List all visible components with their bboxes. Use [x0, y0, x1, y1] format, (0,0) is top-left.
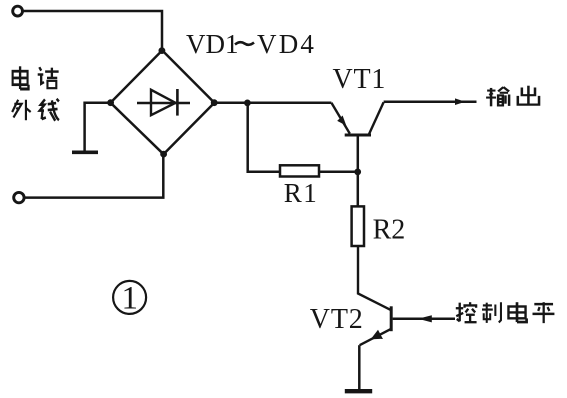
svg-text:R1: R1	[284, 178, 319, 208]
svg-text:VD4: VD4	[257, 29, 316, 59]
svg-text:VD1: VD1	[186, 29, 239, 59]
svg-text:VT2: VT2	[310, 304, 364, 335]
svg-text:R2: R2	[373, 214, 406, 245]
svg-text:VT1: VT1	[333, 64, 387, 95]
svg-text:1: 1	[122, 281, 139, 317]
